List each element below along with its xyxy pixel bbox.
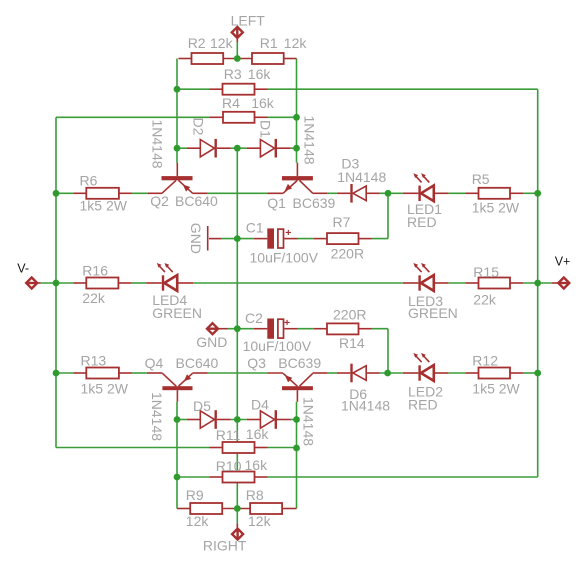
svg-text:1N4148: 1N4148 — [150, 120, 166, 169]
svg-text:D4: D4 — [251, 397, 269, 413]
svg-text:16k: 16k — [251, 95, 275, 111]
svg-text:R7: R7 — [333, 214, 351, 230]
svg-text:R13: R13 — [81, 353, 107, 369]
svg-text:D1: D1 — [257, 120, 273, 138]
svg-text:220R: 220R — [333, 307, 366, 323]
svg-text:12k: 12k — [284, 35, 308, 51]
svg-text:R5: R5 — [472, 171, 490, 187]
svg-text:1k5 2W: 1k5 2W — [81, 381, 129, 397]
svg-text:D2: D2 — [191, 118, 207, 136]
svg-text:BC640: BC640 — [175, 193, 218, 209]
svg-text:Q1: Q1 — [267, 195, 286, 211]
svg-text:12k: 12k — [186, 513, 210, 529]
svg-text:Q3: Q3 — [247, 355, 266, 371]
svg-text:R3: R3 — [224, 66, 242, 82]
svg-text:10uF/100V: 10uF/100V — [243, 338, 312, 354]
svg-text:16k: 16k — [245, 457, 269, 473]
svg-text:16k: 16k — [246, 426, 270, 442]
svg-text:16k: 16k — [248, 66, 272, 82]
svg-text:BC639: BC639 — [293, 195, 336, 211]
svg-text:GND: GND — [196, 334, 227, 350]
svg-text:Q4: Q4 — [145, 355, 164, 371]
svg-text:1k5 2W: 1k5 2W — [472, 199, 520, 215]
svg-text:1k5 2W: 1k5 2W — [472, 381, 520, 397]
svg-text:V-: V- — [17, 262, 29, 276]
svg-text:R12: R12 — [472, 353, 498, 369]
svg-text:D5: D5 — [193, 398, 211, 414]
svg-text:1N4148: 1N4148 — [337, 169, 386, 185]
svg-text:R11: R11 — [216, 427, 241, 443]
svg-text:Q2: Q2 — [150, 193, 169, 209]
svg-text:R10: R10 — [216, 458, 242, 474]
svg-text:C1: C1 — [246, 220, 264, 236]
svg-text:R4: R4 — [222, 95, 240, 111]
svg-text:GREEN: GREEN — [408, 305, 458, 321]
svg-text:R1: R1 — [260, 35, 278, 51]
svg-text:220R: 220R — [331, 245, 364, 261]
svg-text:RED: RED — [408, 397, 438, 413]
svg-text:12k: 12k — [248, 513, 272, 529]
svg-text:R9: R9 — [186, 487, 204, 503]
svg-text:+: + — [285, 227, 291, 239]
svg-text:1N4148: 1N4148 — [149, 392, 165, 441]
svg-text:12k: 12k — [210, 35, 234, 51]
svg-text:C2: C2 — [245, 310, 263, 326]
svg-text:10uF/100V: 10uF/100V — [250, 250, 319, 266]
svg-text:LEFT: LEFT — [231, 13, 266, 29]
svg-text:22k: 22k — [82, 290, 106, 306]
svg-text:1k5 2W: 1k5 2W — [80, 198, 128, 214]
svg-text:1N4148: 1N4148 — [302, 116, 318, 165]
svg-text:R16: R16 — [82, 263, 108, 279]
svg-text:1N4148: 1N4148 — [301, 397, 317, 446]
svg-text:RIGHT: RIGHT — [203, 538, 247, 554]
svg-text:V+: V+ — [555, 254, 571, 268]
svg-text:R15: R15 — [473, 264, 499, 280]
svg-text:22k: 22k — [473, 292, 497, 308]
svg-text:GREEN: GREEN — [152, 305, 202, 321]
svg-text:1N4148: 1N4148 — [341, 398, 390, 414]
svg-text:BC640: BC640 — [176, 355, 219, 371]
svg-text:R6: R6 — [80, 173, 98, 189]
svg-text:R2: R2 — [188, 35, 206, 51]
svg-text:RED: RED — [407, 214, 437, 230]
svg-text:+: + — [284, 317, 290, 329]
svg-text:BC639: BC639 — [278, 355, 321, 371]
svg-text:GND: GND — [188, 223, 204, 254]
svg-text:R14: R14 — [339, 335, 365, 351]
svg-text:R8: R8 — [246, 487, 264, 503]
